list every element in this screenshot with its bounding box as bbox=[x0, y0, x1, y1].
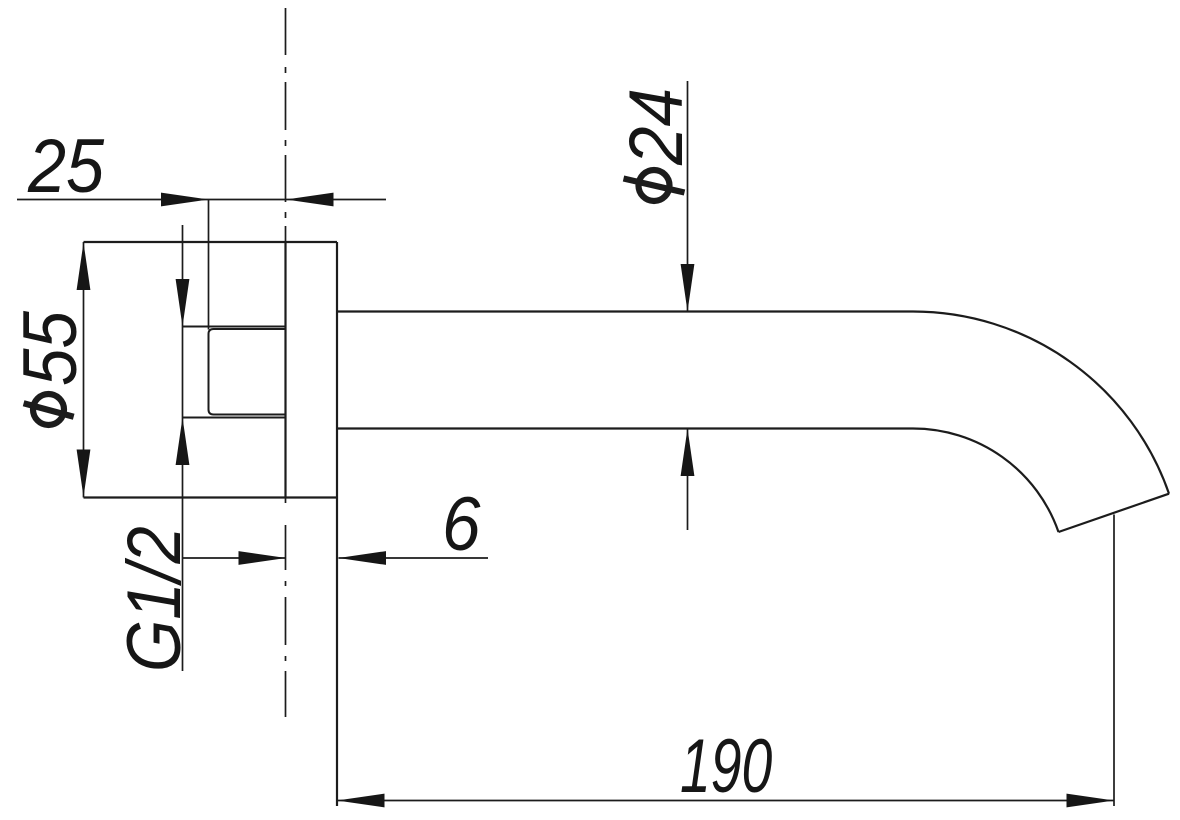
svg-text:55: 55 bbox=[8, 310, 93, 386]
svg-text:6: 6 bbox=[442, 482, 481, 567]
svg-text:25: 25 bbox=[27, 125, 105, 209]
svg-text:24: 24 bbox=[614, 88, 699, 166]
svg-text:G1/2: G1/2 bbox=[112, 526, 197, 672]
svg-text:190: 190 bbox=[680, 725, 772, 810]
